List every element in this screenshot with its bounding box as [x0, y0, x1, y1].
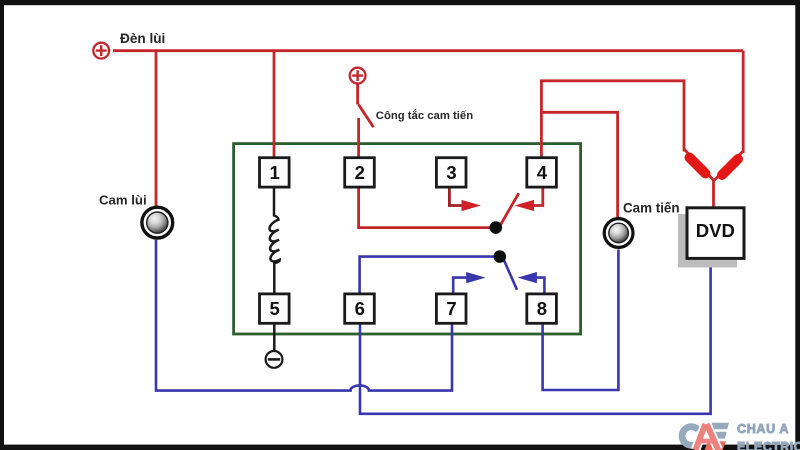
- svg-text:DVD: DVD: [696, 220, 735, 241]
- svg-text:5: 5: [269, 298, 279, 319]
- svg-text:Đèn lùi: Đèn lùi: [120, 31, 165, 46]
- svg-text:Cam lùi: Cam lùi: [99, 193, 147, 208]
- svg-text:ELECTRIC: ELECTRIC: [737, 440, 800, 450]
- svg-text:Cam tiến: Cam tiến: [623, 201, 680, 216]
- svg-text:4: 4: [537, 162, 548, 183]
- svg-text:2: 2: [355, 162, 365, 183]
- svg-text:8: 8: [537, 298, 547, 319]
- svg-text:Công tắc cam tiến: Công tắc cam tiến: [376, 109, 473, 122]
- svg-text:3: 3: [446, 162, 456, 183]
- svg-text:7: 7: [446, 298, 456, 319]
- svg-text:1: 1: [269, 162, 279, 183]
- svg-text:CHAU A: CHAU A: [737, 422, 789, 436]
- svg-text:6: 6: [355, 298, 365, 319]
